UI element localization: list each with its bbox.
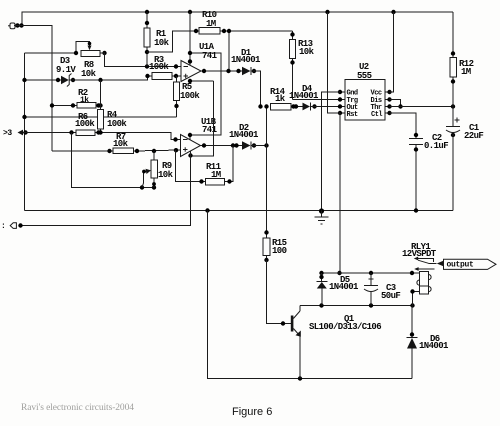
ground rail y=210.5 xyxy=(25,208,454,212)
capacitor C2 0.1uF xyxy=(409,133,448,211)
svg-text:1N4001: 1N4001 xyxy=(229,130,259,140)
svg-text:Ravi's electronic circuits-200: Ravi's electronic circuits-2004 xyxy=(21,403,134,413)
svg-text:741: 741 xyxy=(202,125,218,135)
svg-text:12VSPDT: 12VSPDT xyxy=(402,249,437,259)
relay RLY1 coil xyxy=(402,242,437,306)
resistor R11 xyxy=(176,146,234,186)
svg-text:1N4001: 1N4001 xyxy=(289,91,319,101)
svg-text:100k: 100k xyxy=(180,91,200,101)
wire R1 node to R10 left xyxy=(147,29,199,52)
wire 555 Thr to R12/C1 xyxy=(390,104,456,108)
wire R10 right to output node and R13 xyxy=(220,29,293,71)
resistor R2 xyxy=(50,88,103,108)
wire U1B V- down to negative terminal row xyxy=(21,151,191,226)
wire R2 right up to zener node xyxy=(100,80,102,110)
wire 555 Vcc to V+ rail xyxy=(390,12,394,92)
transistor Q1 xyxy=(291,306,381,379)
wire V+ branch to op-amps x=190 xyxy=(188,12,221,140)
svg-text:555: 555 xyxy=(357,71,372,81)
svg-text::: : xyxy=(1,222,5,231)
wire 555 Rst down to relay supply row xyxy=(322,113,342,275)
svg-text:Figure 6: Figure 6 xyxy=(232,406,272,418)
wire 555 Dis to Thr xyxy=(390,100,403,109)
svg-text:1N4001: 1N4001 xyxy=(231,55,261,65)
resistor R7 xyxy=(113,132,181,154)
wire D2 cathode to diode-OR node xyxy=(251,143,269,147)
wire D1 cathode down to R14 row xyxy=(251,71,261,107)
diode D6 xyxy=(407,306,450,379)
wire R6 left down to R9 row xyxy=(72,133,157,190)
terminal >3 (left input) xyxy=(3,129,28,138)
relay RLY1 contacts xyxy=(414,257,437,271)
svg-text:>3: >3 xyxy=(3,129,12,138)
diode D4 xyxy=(289,84,319,110)
svg-text:1M: 1M xyxy=(206,19,216,29)
wire U1A V- to U1B V- xyxy=(188,79,214,158)
svg-text:100k: 100k xyxy=(75,119,95,129)
resistor R4 xyxy=(98,110,128,133)
svg-text:100k: 100k xyxy=(149,62,169,72)
svg-text:9.1V: 9.1V xyxy=(56,65,76,75)
svg-text:10k: 10k xyxy=(81,69,97,79)
svg-text:1k: 1k xyxy=(80,96,89,105)
wire D4 cathode to 555 Out xyxy=(311,106,341,108)
wire 555 Ctl to C2 xyxy=(390,113,419,139)
wire ground rail to bottom rail xyxy=(208,211,413,381)
wire R5 bottom to left bus (row y=117) xyxy=(22,115,176,119)
resistor R14 xyxy=(270,87,303,110)
svg-text:10k: 10k xyxy=(113,139,129,149)
diode D1 xyxy=(231,48,261,75)
svg-text:0.1uF: 0.1uF xyxy=(424,141,448,151)
wire G bus to R7 row (U1B non-inverting) xyxy=(52,149,113,153)
resistor R13 xyxy=(290,31,315,100)
resistor R10 xyxy=(199,10,220,34)
wire 555 Gnd to ground rail xyxy=(322,92,341,211)
wire row y=132.5 to U1B inverting input xyxy=(23,130,181,141)
wire diode-OR node vertical (R14 row to R15) xyxy=(258,104,268,238)
preset R9 xyxy=(142,151,174,188)
svg-text:Rst: Rst xyxy=(347,111,358,119)
svg-text:10k: 10k xyxy=(154,38,170,48)
svg-text:output: output xyxy=(447,261,475,270)
svg-text:1M: 1M xyxy=(461,67,471,77)
wire R13 bottom to 555 Trg xyxy=(293,99,341,101)
op-amp U1A xyxy=(181,42,218,82)
IC U2 555 xyxy=(345,62,385,120)
555 pin stubs and pin dots xyxy=(338,90,392,115)
caption Figure 6 xyxy=(232,406,272,418)
wire left bus x=24.5 xyxy=(25,53,77,211)
svg-text:SL100/D313/C106: SL100/D313/C106 xyxy=(309,322,381,332)
svg-text:741: 741 xyxy=(202,51,218,61)
wire V+ rail to 555 Rst xyxy=(328,12,341,113)
resistor R15 xyxy=(263,238,287,262)
wire relay supply row y=273 xyxy=(319,271,419,275)
svg-text:1k: 1k xyxy=(275,94,286,104)
diode D2 xyxy=(229,123,259,150)
wire R15 bottom to Q1 base xyxy=(267,260,292,326)
terminal : (negative supply) xyxy=(1,222,23,231)
zener diode D3 9.1V xyxy=(22,56,76,87)
diode D5 xyxy=(317,273,360,306)
wire from terminal G to vertical bus xyxy=(14,26,52,152)
svg-text:1N4001: 1N4001 xyxy=(329,282,359,292)
resistor R6 xyxy=(69,112,95,136)
terminal G (top-left input) xyxy=(8,23,24,29)
svg-text:10k: 10k xyxy=(299,47,315,57)
potentiometer R8 xyxy=(74,42,107,80)
resistor R5 xyxy=(174,76,201,117)
capacitor C3 50uF xyxy=(364,273,400,306)
svg-text:Ctl: Ctl xyxy=(371,111,382,119)
wire R8 right to U1A inverting input xyxy=(100,53,181,69)
net label output flag xyxy=(437,259,496,269)
capacitor C1 22uF xyxy=(446,118,483,211)
op-amp U1B xyxy=(181,117,218,157)
svg-text:50uF: 50uF xyxy=(381,291,400,301)
watermark text xyxy=(21,403,134,413)
resistor R12 xyxy=(450,12,474,127)
svg-text:22uF: 22uF xyxy=(464,131,483,141)
svg-text:1M: 1M xyxy=(211,170,221,180)
wire zener cathode to R3 xyxy=(70,74,153,82)
wire Q1 collector row y=305.5 xyxy=(300,303,415,307)
svg-text:100: 100 xyxy=(272,246,287,256)
wire V+ top rail xyxy=(22,10,453,26)
wire U1B output row xyxy=(201,143,243,147)
svg-text:10k: 10k xyxy=(158,170,174,180)
wire U1A output row xyxy=(201,69,242,73)
resistor R3 xyxy=(149,55,181,80)
svg-text:100k: 100k xyxy=(107,119,127,129)
resistor R1 xyxy=(144,12,170,67)
ground symbol xyxy=(315,208,329,224)
svg-text:1N4001: 1N4001 xyxy=(419,341,449,351)
